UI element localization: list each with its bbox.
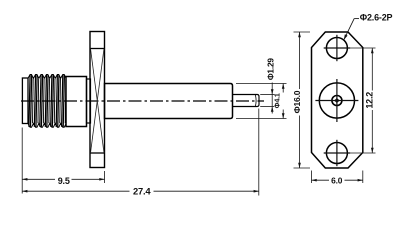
flange cross diagonal marks bbox=[91, 49, 105, 154]
center crosshair bbox=[315, 100, 358, 102]
dimension phi4.1 extension lines at body bbox=[236, 83, 287, 85]
dimension phi16.0 line with arrows bbox=[299, 32, 301, 89]
external coupling thread bbox=[28, 75, 66, 128]
top hole crosshair bbox=[324, 47, 350, 49]
center interface circle phi4.1 bbox=[319, 83, 354, 118]
center pin dot bbox=[334, 98, 339, 103]
dimension 27.4 line with arrows bbox=[22, 190, 129, 192]
center pin phi1.29 bbox=[233, 95, 260, 107]
dimension phi16.0 extension lines bbox=[294, 31, 311, 33]
leader line for phi2.6-2P bbox=[344, 19, 354, 40]
dimension 27.4 extension line at pin tip bbox=[258, 109, 260, 196]
dimension 12.2 extension lines bbox=[349, 47, 376, 49]
svg-text:9.5: 9.5 bbox=[58, 176, 70, 186]
dimension phi1.29 extension lines at pin bbox=[260, 94, 274, 96]
top mounting hole phi2.6 bbox=[326, 38, 347, 59]
dimension 9.5 line with arrows bbox=[22, 178, 55, 180]
dimension phi1.29 line and arrows bbox=[271, 83, 273, 114]
svg-text:Φ4.1: Φ4.1 bbox=[273, 93, 282, 108]
svg-text:Φ2.6-2P: Φ2.6-2P bbox=[360, 12, 393, 22]
dimension 6.0 line with arrows bbox=[312, 179, 330, 181]
body section behind thread bbox=[66, 77, 87, 127]
connector end cap (nut) bbox=[22, 78, 28, 124]
dimension 9.5 extension lines bbox=[21, 128, 23, 194]
dimension 6.0 extension lines bbox=[311, 171, 313, 184]
flange (side view) bbox=[90, 32, 105, 168]
leader arrowhead bbox=[344, 34, 348, 40]
svg-text:Φ16.0: Φ16.0 bbox=[292, 90, 302, 113]
svg-text:12.2: 12.2 bbox=[365, 92, 375, 109]
bottom mounting hole phi2.6 bbox=[326, 143, 347, 164]
center pin circle phi1.29 bbox=[332, 96, 342, 106]
dimension phi4.1 line and arrows bbox=[282, 84, 284, 93]
svg-text:6.0: 6.0 bbox=[331, 175, 343, 185]
wire centerline of connector axis (dash-dot) bbox=[21, 100, 264, 102]
svg-text:Φ1.29: Φ1.29 bbox=[266, 58, 276, 81]
dimension 12.2 line with arrows bbox=[371, 48, 373, 91]
bottom hole crosshair bbox=[324, 152, 350, 154]
body tube phi4.1 bbox=[105, 84, 233, 119]
groove section at flange front bbox=[87, 79, 91, 123]
pin tip arc bbox=[254, 95, 257, 106]
svg-text:27.4: 27.4 bbox=[133, 186, 151, 197]
flange plate front view outline bbox=[312, 32, 363, 168]
